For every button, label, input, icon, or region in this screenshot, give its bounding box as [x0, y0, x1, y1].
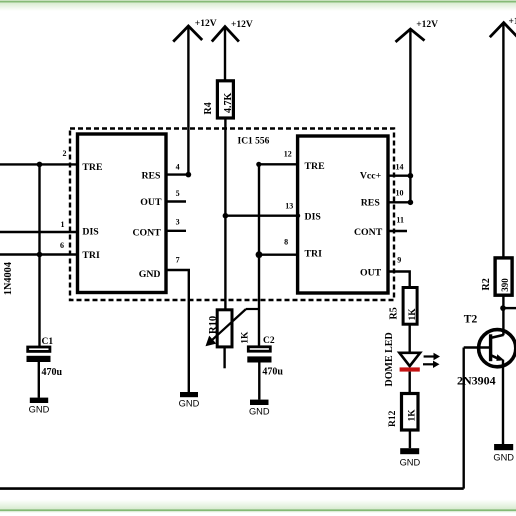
svg-text:6: 6 [60, 241, 64, 250]
svg-text:IC1 556: IC1 556 [238, 137, 270, 147]
LED light arrows [424, 355, 435, 357]
wire wiper to C2 line [246, 308, 259, 310]
node junction TRE [37, 162, 43, 168]
wire pin4 RES [166, 173, 188, 175]
wire to pin12 TRE [259, 163, 298, 165]
wire pin7 GND [166, 270, 189, 392]
ground T2 emitter [494, 444, 513, 450]
svg-text:C2: C2 [263, 336, 275, 346]
potentiometer R10 [217, 310, 232, 347]
svg-text:RES: RES [141, 170, 161, 181]
wire R5 to LED [409, 324, 411, 353]
wire R2 to collector node [502, 295, 504, 335]
wire R12 to ground [409, 430, 411, 448]
node junction TRI [37, 252, 43, 258]
svg-text:CONT: CONT [354, 227, 383, 238]
svg-text:DIS: DIS [305, 212, 322, 223]
svg-text:390: 390 [500, 278, 510, 292]
svg-text:GND: GND [400, 458, 421, 468]
svg-text:1K: 1K [408, 308, 418, 321]
wire pin11 CONT stub [388, 230, 407, 232]
wire base [464, 346, 489, 348]
wire pin10 RES [388, 201, 410, 203]
wire +12V rail 4 to R2 [502, 23, 504, 258]
svg-text:7: 7 [176, 256, 180, 265]
svg-text:R10: R10 [208, 316, 219, 334]
wire +12V rail 1 [187, 26, 189, 175]
svg-text:GND: GND [139, 269, 161, 280]
svg-text:13: 13 [285, 202, 293, 211]
LED DOME [399, 353, 420, 366]
svg-text:C1: C1 [42, 337, 54, 347]
svg-text:+12V: +12V [195, 19, 217, 29]
svg-text:TRE: TRE [305, 161, 326, 172]
wire pin9 OUT to R5 [388, 272, 410, 288]
power +12V arrow 1 [173, 26, 202, 42]
svg-text:GND: GND [249, 407, 270, 417]
svg-text:GND: GND [179, 399, 200, 409]
node collector [500, 305, 506, 311]
resistor R12 [402, 394, 419, 431]
svg-text:CONT: CONT [132, 228, 161, 239]
svg-text:1: 1 [61, 220, 65, 229]
ground pin7 [180, 392, 198, 397]
ground R12 [400, 448, 419, 454]
resistor R5 [403, 288, 417, 325]
power +12V arrow 4 [490, 23, 516, 38]
dashed box IC1 556 outline [70, 129, 394, 301]
svg-text:1N4004: 1N4004 [3, 262, 14, 295]
wire emitter to ground [502, 360, 504, 444]
svg-text:R4: R4 [203, 102, 214, 114]
svg-text:10: 10 [396, 188, 404, 197]
svg-text:GND: GND [29, 405, 50, 415]
wire C1 to ground [38, 362, 40, 398]
wire R4 to R10 [224, 118, 226, 310]
svg-text:OUT: OUT [140, 197, 162, 208]
svg-text:T2: T2 [464, 313, 478, 325]
svg-text:8: 8 [284, 237, 288, 246]
wire R10 wiper arrow [210, 309, 247, 342]
svg-text:DIS: DIS [82, 227, 99, 238]
svg-text:TRI: TRI [305, 249, 323, 260]
svg-text:2: 2 [63, 149, 67, 158]
wire base to bottom rail [463, 348, 465, 489]
node pin12 junction [256, 162, 261, 167]
svg-text:DOME LED: DOME LED [384, 332, 395, 386]
wire collector node to right edge [503, 307, 516, 309]
power +12V arrow 3 [396, 29, 425, 42]
op-amp/timer IC1a box [78, 134, 167, 293]
node pin13 [296, 214, 300, 218]
node pin4 [186, 172, 192, 178]
op-amp/timer IC1b box [298, 136, 388, 293]
svg-text:5: 5 [176, 189, 180, 198]
wire bottom rail [0, 487, 464, 490]
wire TRI input [0, 253, 78, 255]
svg-text:RES: RES [361, 198, 381, 209]
svg-text:GND: GND [493, 453, 514, 463]
power +12V arrow 2 [212, 27, 239, 42]
wire pin3 CONT stub [166, 230, 186, 232]
transistor T2 2N3904 [479, 330, 516, 367]
svg-text:470u: 470u [42, 367, 63, 378]
svg-text:1K: 1K [240, 331, 250, 344]
resistor R4 [217, 81, 233, 118]
svg-text:9: 9 [397, 256, 401, 265]
wire pin5 OUT stub [166, 200, 186, 202]
svg-text:R2: R2 [481, 278, 492, 290]
wire C2 to ground [258, 363, 260, 400]
svg-text:+12V: +12V [231, 20, 253, 30]
node pin8 junction [256, 251, 263, 258]
svg-text:TRI: TRI [82, 250, 100, 261]
node pin10 [408, 200, 414, 206]
wire DIS input [0, 231, 78, 233]
svg-text:3: 3 [176, 218, 180, 227]
svg-text:TRE: TRE [82, 162, 103, 173]
wire to C1 [38, 164, 40, 346]
ground C2 [250, 400, 269, 405]
svg-text:+12V: +12V [416, 20, 438, 30]
svg-text:12: 12 [284, 150, 292, 159]
svg-text:R5: R5 [389, 307, 400, 319]
wire to pin8 TRI [259, 253, 298, 255]
wire R10 bottom stub [223, 347, 225, 368]
svg-text:11: 11 [396, 215, 404, 224]
svg-text:+12V: +12V [509, 17, 516, 27]
ground C1 [30, 398, 48, 403]
svg-text:1K: 1K [407, 409, 417, 422]
svg-text:Vcc+: Vcc+ [360, 170, 382, 181]
wire +12V rail 3 [409, 29, 411, 202]
node DIS2 junction [223, 213, 229, 219]
svg-text:470u: 470u [262, 366, 283, 377]
svg-text:OUT: OUT [360, 267, 382, 278]
node pin14 [408, 173, 414, 179]
svg-text:4.7K: 4.7K [223, 93, 234, 114]
svg-text:4: 4 [176, 163, 180, 172]
svg-text:R12: R12 [388, 410, 398, 427]
wire LED to R12 [409, 372, 411, 394]
resistor R2 [495, 258, 512, 295]
wire TRE-TRI to C2 [258, 164, 260, 345]
svg-text:14: 14 [396, 162, 404, 171]
wire TRE input [0, 163, 78, 165]
wire pin14 Vcc [388, 174, 410, 176]
wire to pin13 DIS [225, 214, 297, 216]
wire arrow2 to R4 [224, 27, 226, 81]
